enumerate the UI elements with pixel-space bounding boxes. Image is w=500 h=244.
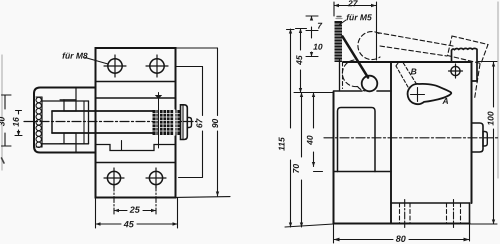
svg-text:80: 80 xyxy=(396,234,406,244)
svg-text:100: 100 xyxy=(485,111,495,125)
svg-text:7: 7 xyxy=(317,21,323,31)
svg-text:10: 10 xyxy=(313,42,323,52)
svg-text:25: 25 xyxy=(129,205,141,215)
svg-text:67: 67 xyxy=(194,117,204,128)
svg-text:45: 45 xyxy=(123,219,135,229)
svg-text:16: 16 xyxy=(11,117,21,127)
svg-text:27: 27 xyxy=(347,0,359,8)
svg-text:70: 70 xyxy=(291,164,301,174)
svg-text:90: 90 xyxy=(210,118,220,128)
svg-text:45: 45 xyxy=(294,55,304,66)
svg-text:B: B xyxy=(411,66,417,76)
svg-text:für M8: für M8 xyxy=(62,51,88,61)
svg-text:40: 40 xyxy=(305,135,315,146)
svg-text:115: 115 xyxy=(276,137,286,151)
svg-text:für M5: für M5 xyxy=(346,12,372,22)
svg-text:30: 30 xyxy=(0,116,7,126)
svg-text:A: A xyxy=(442,96,449,106)
